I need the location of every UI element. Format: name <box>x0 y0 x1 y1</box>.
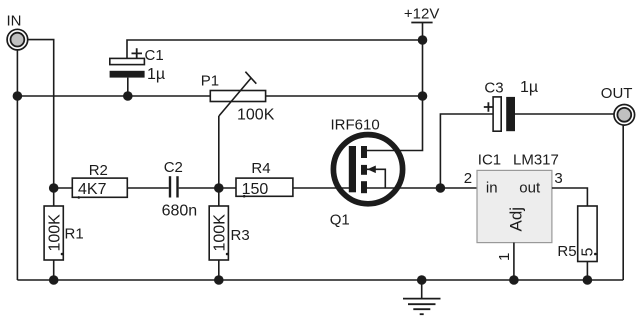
svg-text:100K: 100K <box>212 214 229 252</box>
wire P1 wiper down to node <box>218 116 220 188</box>
svg-text:R1: R1 <box>65 226 84 243</box>
resistor R4 <box>236 178 293 197</box>
junction dot R1/rail <box>49 275 59 285</box>
potentiometer P1 <box>210 72 265 116</box>
svg-text:100K: 100K <box>237 106 275 123</box>
wire bottom rail <box>17 279 623 281</box>
svg-text:Adj: Adj <box>507 207 526 232</box>
wire source node to IC in <box>440 187 477 189</box>
svg-text:R4: R4 <box>251 160 270 177</box>
svg-text:out: out <box>519 180 541 197</box>
wire R1 top stub <box>53 188 55 206</box>
junction dot source node <box>436 183 446 193</box>
svg-text:Q1: Q1 <box>330 212 350 229</box>
svg-text:150: 150 <box>242 181 269 198</box>
wire source node up to C3 <box>440 114 493 188</box>
svg-text:680n: 680n <box>162 203 198 220</box>
junction dot ground <box>417 275 427 285</box>
svg-text:OUT: OUT <box>601 85 633 102</box>
svg-text:1µ: 1µ <box>147 66 165 83</box>
junction dot R2 node <box>49 183 59 193</box>
svg-text:R3: R3 <box>231 227 250 244</box>
wire IN down to bus <box>16 50 18 96</box>
svg-text:in: in <box>486 180 498 197</box>
wire P1 to +12V <box>266 95 423 97</box>
junction dot R5/rail <box>583 275 593 285</box>
svg-text:C2: C2 <box>164 159 183 176</box>
svg-text:R2: R2 <box>89 162 108 179</box>
wire C1 top to +12V rail <box>127 40 423 58</box>
svg-text:+12V: +12V <box>404 6 439 23</box>
svg-text:2: 2 <box>464 170 472 187</box>
capacitor C1 <box>110 58 145 77</box>
wire bus to P1 <box>17 95 210 97</box>
IC U1 LM317 body <box>477 170 552 242</box>
junction dot +12V/C1 <box>418 35 428 45</box>
wire R1 bottom stub <box>53 260 55 280</box>
capacitor C3 <box>493 97 515 131</box>
capacitor C2 <box>170 176 178 197</box>
wire IN right then down to R2 node <box>28 40 54 188</box>
svg-text:1: 1 <box>496 253 513 261</box>
svg-text:IN: IN <box>7 13 22 30</box>
wire node to R4 <box>219 187 236 189</box>
resistor R2 <box>72 178 127 199</box>
svg-text:LM317: LM317 <box>513 152 559 169</box>
connector J-IN <box>7 29 28 50</box>
wire +12V vertical down to drain tap <box>364 23 423 151</box>
wire R5 bottom stub <box>586 262 588 281</box>
wire R3 bottom stub <box>218 260 220 280</box>
wire IC out to R5 <box>552 188 588 206</box>
C1 plus sign <box>132 48 143 58</box>
wire R4 to gate <box>293 187 352 189</box>
wire C1 bottom to bus <box>127 78 129 96</box>
power +12V <box>404 6 439 23</box>
svg-text:C3: C3 <box>484 80 503 97</box>
svg-text:1µ: 1µ <box>520 79 538 96</box>
wire R2 to C2 <box>127 187 169 189</box>
connector J-OUT <box>614 105 635 126</box>
svg-text:4K7: 4K7 <box>78 181 107 198</box>
wire R3 top stub <box>218 188 220 206</box>
wire C3 to OUT <box>515 113 614 115</box>
svg-text:R5: R5 <box>557 243 576 260</box>
wire source to node <box>367 187 440 189</box>
wire Adj down to rail <box>513 243 515 280</box>
resistor R5 <box>578 206 597 262</box>
junction dot R3/rail <box>214 275 224 285</box>
svg-text:IC1: IC1 <box>478 152 501 169</box>
wire left rail <box>16 96 18 280</box>
junction dot P1/+12V <box>418 91 428 101</box>
junction dot Adj/rail <box>509 275 519 285</box>
wire right riser to OUT <box>622 126 624 281</box>
wire node to R2 <box>54 187 73 189</box>
junction dot C2/R3/R4 node <box>214 183 224 193</box>
C3 plus sign <box>484 102 493 111</box>
svg-text:100K: 100K <box>46 214 63 252</box>
junction dot C1/bus <box>123 91 133 101</box>
ground <box>403 280 441 314</box>
junction dot IN rail/bus <box>13 91 23 101</box>
wire C2 to node <box>179 187 219 189</box>
svg-text:IRF610: IRF610 <box>331 117 380 134</box>
svg-text:P1: P1 <box>201 73 219 90</box>
svg-text:5: 5 <box>580 248 597 257</box>
resistor R3 <box>209 206 228 260</box>
svg-text:3: 3 <box>554 170 562 187</box>
resistor R1 <box>44 206 63 260</box>
svg-text:C1: C1 <box>145 47 164 64</box>
transistor Q1 <box>333 135 402 204</box>
